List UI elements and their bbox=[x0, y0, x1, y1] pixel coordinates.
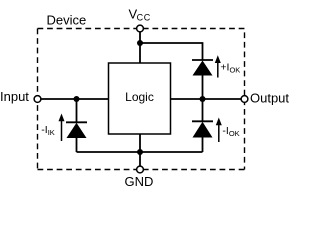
wire input clamp diode branch upper bbox=[76, 99, 78, 122]
device boundary right edge bbox=[244, 29, 246, 170]
wire GND terminal stem bbox=[139, 152, 141, 167]
svg-text:Device: Device bbox=[47, 12, 87, 27]
svg-text:VCC: VCC bbox=[129, 6, 151, 22]
diode D1 output-to-Vcc clamp cathode bar bbox=[192, 59, 213, 61]
terminal Vcc bbox=[137, 25, 144, 32]
svg-text:-IIK: -IIK bbox=[41, 124, 55, 137]
Logic block bbox=[109, 63, 171, 134]
svg-text:Logic: Logic bbox=[125, 90, 154, 104]
diode D2 triangle bbox=[67, 123, 87, 138]
wire output lower clamp diode branch lower bbox=[202, 138, 204, 153]
wire Vcc vertical (terminal to Logic top) bbox=[139, 32, 141, 64]
wire input clamp diode branch lower bbox=[76, 138, 78, 152]
wire output upper clamp diode lower segment bbox=[202, 76, 204, 100]
diode D2 GND-to-input clamp cathode bar bbox=[66, 121, 87, 123]
diode D3 GND-to-output clamp cathode bar bbox=[192, 120, 213, 122]
wire Output horizontal bbox=[171, 98, 242, 100]
arrow -IIK bbox=[61, 120, 63, 142]
wire GND bus bbox=[77, 151, 203, 153]
terminal Input bbox=[34, 96, 41, 103]
wire Input horizontal bbox=[41, 98, 109, 100]
wire Logic bottom to GND bus bbox=[139, 134, 141, 152]
diode D3 triangle bbox=[193, 122, 213, 138]
svg-text:+IOK: +IOK bbox=[220, 61, 240, 74]
device boundary left edge bbox=[37, 29, 39, 170]
device boundary top edge bbox=[38, 28, 245, 30]
arrow +IOK bbox=[217, 62, 219, 78]
svg-text:GND: GND bbox=[125, 174, 154, 189]
svg-text:Output: Output bbox=[250, 90, 289, 105]
svg-text:Input: Input bbox=[0, 89, 29, 104]
junction dot input bbox=[74, 96, 80, 102]
junction dot output bbox=[200, 96, 206, 102]
junction dot GND bbox=[137, 149, 143, 155]
terminal GND bbox=[137, 166, 144, 173]
wire Vcc horizontal to output clamp diode bbox=[140, 43, 203, 60]
diode D1 triangle bbox=[193, 61, 213, 76]
wire output lower clamp diode branch upper bbox=[202, 99, 204, 121]
terminal Output bbox=[241, 96, 248, 103]
junction dot Vcc bbox=[137, 40, 143, 46]
arrow -IOK bbox=[218, 124, 220, 143]
svg-text:-IOK: -IOK bbox=[222, 125, 239, 138]
device boundary bottom edge bbox=[38, 169, 245, 171]
